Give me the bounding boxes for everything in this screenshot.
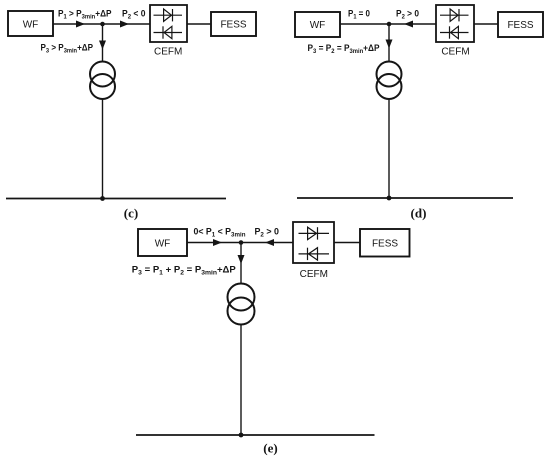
wire transformer to bus (d): [388, 99, 390, 198]
arrow P2 left (d): [404, 21, 413, 28]
wire junction to CEFM (e): [241, 242, 293, 244]
wire WF to junction (e): [187, 242, 241, 244]
svg-text:CEFM: CEFM: [441, 47, 469, 58]
svg-text:FESS: FESS: [507, 20, 533, 31]
wire junction to CEFM (d): [389, 23, 436, 25]
thyristor bottom (d): [440, 26, 469, 38]
node bus junction (c): [100, 196, 105, 201]
wire junction down to transformer (d): [388, 24, 390, 62]
arrow P1 right (c): [76, 21, 85, 28]
box WF (c): [8, 11, 53, 36]
arrow P3 down (d): [386, 40, 393, 49]
svg-text:WF: WF: [23, 20, 39, 31]
svg-text:CEFM: CEFM: [154, 47, 182, 58]
svg-text:WF: WF: [310, 20, 326, 31]
wire CEFM to FESS (d): [474, 23, 498, 25]
box FESS (e): [360, 229, 410, 257]
wire junction down to transformer (c): [102, 24, 104, 62]
svg-text:WF: WF: [155, 239, 171, 250]
arrow P3 down (e): [238, 255, 245, 264]
thyristor bottom (c): [154, 26, 183, 38]
thyristor top (e): [299, 227, 330, 239]
svg-text:FESS: FESS: [372, 239, 398, 250]
thyristor top (c): [154, 9, 183, 21]
arrow P1 right (e): [213, 239, 222, 246]
wire CEFM to FESS (e): [334, 242, 360, 244]
node junction (c): [100, 22, 105, 27]
wire transformer to bus (c): [102, 99, 104, 199]
thyristor bottom (e): [299, 248, 330, 260]
bus bar (c): [6, 198, 226, 200]
node bus junction (e): [239, 433, 244, 438]
node junction (d): [387, 22, 392, 27]
converter CEFM box (c): [150, 5, 187, 42]
arrow P3 down (c): [99, 41, 106, 50]
arrow P2 right (c): [120, 21, 129, 28]
svg-text:(d): (d): [411, 206, 427, 221]
arrow P2 left (e): [265, 239, 274, 246]
thyristor top (d): [440, 9, 469, 21]
svg-text:CEFM: CEFM: [300, 269, 328, 280]
bus bar (d): [297, 197, 513, 199]
transformer (c): [90, 62, 115, 100]
wire WF to junction (d): [340, 23, 389, 25]
box FESS (d): [498, 12, 543, 37]
wire CEFM to FESS (c): [187, 23, 211, 25]
box WF (d): [295, 12, 340, 37]
box WF (e): [138, 229, 187, 256]
wire transformer to bus (e): [240, 325, 242, 436]
converter CEFM box (e): [293, 222, 334, 263]
wire junction down to transformer (e): [240, 243, 242, 285]
bus bar (e): [136, 434, 375, 436]
wire WF to junction (c): [53, 23, 103, 25]
node junction (e): [239, 240, 244, 245]
svg-text:(e): (e): [263, 441, 277, 456]
box FESS (c): [211, 12, 256, 36]
svg-text:FESS: FESS: [220, 20, 246, 31]
converter CEFM box (d): [436, 5, 474, 42]
node bus junction (d): [387, 196, 392, 201]
transformer (d): [377, 62, 402, 100]
transformer (e): [228, 284, 255, 325]
wire junction to CEFM (c): [103, 23, 151, 25]
svg-text:(c): (c): [124, 206, 138, 221]
